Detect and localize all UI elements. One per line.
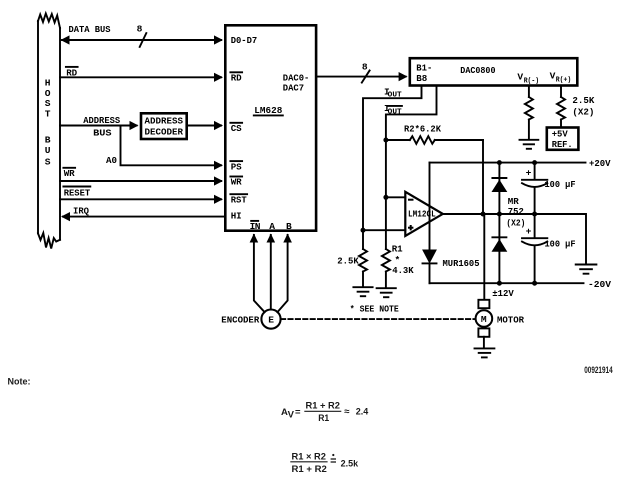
svg-text:+: + [526, 167, 532, 178]
svg-text:WR: WR [64, 168, 75, 179]
svg-text:2.5K: 2.5K [337, 256, 359, 267]
motor M [476, 300, 525, 348]
wire +20V corner down to MUR1605 [429, 163, 431, 250]
svg-text:+: + [526, 226, 532, 237]
svg-text:V: V [550, 70, 556, 81]
svg-text:4.3K: 4.3K [392, 265, 414, 276]
+20V rail [430, 158, 611, 169]
-20V rail [430, 279, 612, 290]
diode MUR1605 [423, 250, 480, 283]
svg-text:RST: RST [231, 194, 247, 205]
svg-text:=: = [295, 407, 301, 418]
resistor 2.5K (X2) on VR(+) [557, 86, 595, 126]
wire RESET host to LM628 [60, 187, 223, 204]
svg-text:2.5k: 2.5k [341, 459, 359, 470]
wire encoder IN [250, 234, 265, 313]
wire inverting input [383, 195, 405, 200]
svg-text:PS: PS [231, 161, 242, 172]
svg-text:* SEE NOTE: * SEE NOTE [350, 303, 399, 314]
svg-text:RESET: RESET [64, 187, 91, 198]
svg-text:MUR1605: MUR1605 [443, 258, 480, 269]
svg-text:2.4: 2.4 [356, 407, 369, 418]
svg-text:R(+): R(+) [556, 76, 572, 84]
svg-text:8: 8 [362, 61, 368, 72]
LM628 IC box [225, 25, 316, 232]
encoder E [221, 310, 280, 329]
svg-text:RD: RD [66, 67, 77, 78]
resistor 2.5K to ground (+ input) [337, 230, 367, 286]
ground (R1) [377, 288, 396, 297]
wire output to motor, +/-12V [484, 214, 514, 299]
svg-text:B1-: B1- [416, 62, 432, 73]
svg-text:752: 752 [508, 206, 524, 217]
+5V REF box [547, 128, 579, 151]
formula Av = (R1+R2)/R1 ~ 2.4 [281, 400, 369, 424]
svg-text:8: 8 [137, 24, 143, 35]
svg-text:MOTOR: MOTOR [497, 314, 524, 325]
svg-text:00921914: 00921914 [584, 365, 613, 376]
svg-text:LM12CL: LM12CL [408, 209, 436, 220]
svg-text:R1: R1 [392, 243, 403, 254]
capacitor 100uF (lower) [522, 214, 576, 286]
svg-text:(X2): (X2) [506, 217, 525, 228]
wire IOUT-bar from DAC0800 [384, 86, 437, 249]
svg-text:OUT: OUT [388, 92, 403, 100]
DAC0800 box [410, 58, 578, 85]
svg-text:ADDRESS: ADDRESS [145, 115, 184, 126]
svg-text:M: M [481, 314, 487, 325]
diode pair MR752 (X2) [492, 160, 525, 286]
output node wire to caps midpoint and ground [443, 212, 586, 264]
svg-text:DECODER: DECODER [145, 126, 184, 137]
svg-text:REF.: REF. [552, 139, 573, 150]
svg-text:N: N [255, 221, 261, 232]
wire encoder B [277, 234, 292, 313]
svg-text:LM628: LM628 [254, 105, 282, 116]
wire A0 branch to PS [106, 126, 223, 170]
svg-text:-20V: -20V [588, 279, 611, 290]
svg-text:V: V [517, 71, 523, 82]
svg-text:V: V [288, 409, 295, 420]
svg-text:T: T [45, 109, 51, 120]
svg-text:DAC7: DAC7 [283, 83, 304, 94]
op-amp LM12CL [405, 192, 443, 236]
wire ADDRESS BUS to decoder [60, 115, 139, 138]
resistor on VR(-) to ground [525, 86, 533, 139]
svg-text:R1 × R2: R1 × R2 [292, 451, 327, 462]
dashed wire encoder to motor [281, 318, 475, 320]
wire WR host to LM628 [60, 168, 223, 186]
svg-text:S: S [45, 156, 51, 167]
wire non-inverting input [361, 228, 406, 233]
svg-text:R1 + R2: R1 + R2 [306, 400, 341, 411]
wire decoder to CS [188, 121, 223, 130]
svg-text:+5V: +5V [552, 129, 568, 140]
svg-text:R2*6.2K: R2*6.2K [404, 123, 441, 134]
svg-text:(X2): (X2) [572, 107, 594, 118]
ground (2.5K) [353, 287, 372, 296]
svg-text:S: S [45, 98, 51, 109]
resistor R2*6.2K feedback [386, 123, 483, 144]
svg-text:≈: ≈ [344, 406, 350, 417]
svg-text:100 µF: 100 µF [545, 239, 576, 250]
svg-text:OUT: OUT [388, 108, 403, 116]
svg-text:Note:: Note: [8, 376, 31, 387]
host bus bar [38, 14, 60, 249]
svg-text:A: A [269, 221, 275, 232]
svg-text:R1: R1 [318, 413, 330, 424]
svg-text:2.5K: 2.5K [572, 95, 594, 106]
svg-text:±12V: ±12V [492, 288, 514, 299]
wire feedback to output node [482, 140, 484, 214]
svg-text:B: B [45, 134, 51, 145]
svg-text:B8: B8 [416, 73, 427, 84]
wire IOUT from DAC0800 [363, 86, 422, 230]
svg-text:DATA BUS: DATA BUS [69, 24, 111, 35]
ground (supply midpoint) [576, 265, 597, 274]
svg-text:+20V: +20V [589, 158, 611, 169]
capacitor 100uF (upper) [522, 160, 576, 214]
wire DAC0-DAC7 8-bit bus to DAC0800 [317, 61, 408, 82]
svg-text:H: H [45, 77, 51, 88]
svg-text:RD: RD [231, 73, 242, 84]
svg-text:ENCODER: ENCODER [221, 314, 259, 325]
svg-text:R(-): R(-) [524, 77, 540, 85]
wire DATA BUS (8-bit, bidirectional) [61, 24, 224, 47]
svg-text:U: U [45, 145, 51, 156]
svg-text:A0: A0 [106, 155, 117, 166]
svg-text:ADDRESS: ADDRESS [83, 115, 120, 126]
wire encoder A [267, 234, 276, 310]
svg-text:D0-D7: D0-D7 [231, 35, 258, 46]
svg-text:WR: WR [231, 177, 242, 188]
svg-text:R1 + R2: R1 + R2 [292, 464, 327, 475]
formula R1*R2/(R1+R2) = 2.5k [290, 451, 358, 475]
svg-text:CS: CS [231, 123, 242, 134]
ground (motor) [475, 348, 495, 357]
svg-text:100 µF: 100 µF [545, 179, 576, 190]
svg-text:HI: HI [231, 210, 242, 221]
wire RD host to LM628 [60, 67, 223, 82]
resistor R1 4.3K to ground (- input) [382, 243, 414, 287]
ground (VR- resistor) [520, 140, 539, 149]
wire IRQ LM628 to host [61, 205, 225, 221]
address decoder box [141, 113, 187, 139]
svg-text:B: B [286, 221, 292, 232]
svg-text:BUS: BUS [93, 127, 112, 138]
svg-text:O: O [45, 88, 51, 99]
svg-text:IRQ: IRQ [73, 205, 89, 216]
svg-text:DAC0800: DAC0800 [460, 65, 495, 76]
svg-text:E: E [268, 315, 274, 326]
node R2/IOUTbar junction [383, 138, 388, 143]
